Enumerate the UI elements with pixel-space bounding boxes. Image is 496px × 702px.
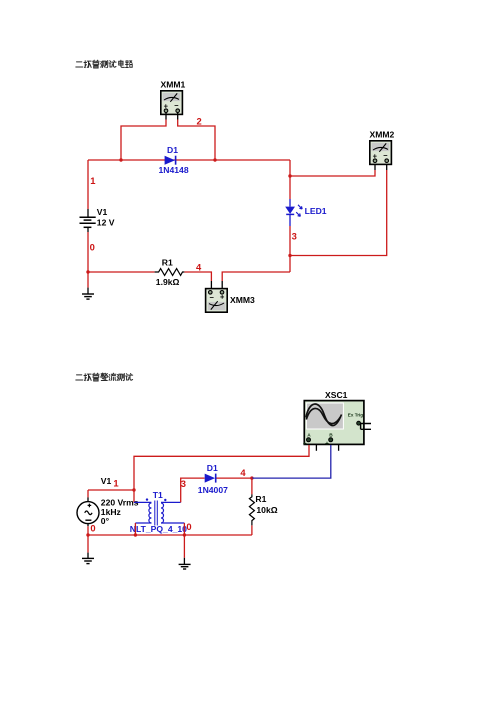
battery V1 <box>80 207 115 232</box>
title: circuit 2 (二极管整流测试) <box>76 373 133 381</box>
junction bottom-left <box>86 270 89 273</box>
svg-text:3: 3 <box>181 478 186 489</box>
ground (bottom circuit left) <box>82 553 94 564</box>
wire XMM1 + to node on top wire <box>121 120 166 161</box>
svg-text:XSC1: XSC1 <box>325 390 348 400</box>
svg-text:0: 0 <box>90 242 95 253</box>
svg-text:XMM2: XMM2 <box>370 130 395 140</box>
wire diode to node 4 junction <box>217 477 252 479</box>
wire T1 primary bottom to rail <box>134 523 136 535</box>
wire to ground left <box>87 535 89 553</box>
multimeter XMM2 <box>370 130 395 165</box>
junction V1 tap <box>132 488 135 491</box>
svg-text:0°: 0° <box>101 516 110 526</box>
wire down to ground <box>87 272 89 288</box>
wire XMM3 - to right rail <box>222 272 290 281</box>
svg-text:12 V: 12 V <box>97 218 115 228</box>
wire secondary top to node 3 corner <box>181 478 205 502</box>
svg-text:V1: V1 <box>101 476 112 486</box>
junction primary bottom <box>134 533 137 536</box>
wire XMM3 - lead <box>221 281 223 288</box>
svg-text:0: 0 <box>186 521 191 532</box>
svg-text:2: 2 <box>197 116 202 127</box>
junction right XMM1 tap <box>213 158 216 161</box>
multimeter XMM1 <box>161 80 186 115</box>
ground (top circuit) <box>82 288 94 300</box>
oscilloscope XSC1 <box>303 390 371 451</box>
junction XMM2 + tap <box>288 174 291 177</box>
svg-text:Ex Trig: Ex Trig <box>348 413 364 418</box>
LED1 <box>285 199 327 226</box>
junction left XMM1 tap <box>119 158 122 161</box>
junction node 4 <box>250 476 253 479</box>
wire node4 to XSC1 B (blue) <box>252 445 331 478</box>
wire XMM1 - lead <box>177 113 179 120</box>
svg-text:3: 3 <box>292 231 297 242</box>
svg-text:R1: R1 <box>162 258 173 268</box>
svg-text:1N4148: 1N4148 <box>159 165 189 175</box>
wire XMM2 - lead <box>386 163 388 171</box>
resistor R1 (bottom) <box>249 478 277 535</box>
svg-text:10kΩ: 10kΩ <box>256 505 277 515</box>
wire V1 top to junction <box>88 489 134 491</box>
wire V1 bottom to rail <box>87 526 89 535</box>
title: circuit 1 (二极管测试电路) <box>76 60 132 68</box>
wire XMM3 + lead <box>210 281 212 288</box>
wire XMM2 - branch <box>290 170 387 256</box>
svg-text:XMM3: XMM3 <box>230 295 255 305</box>
ground (bottom circuit middle) <box>179 558 191 569</box>
wire R1 to XMM3 + <box>184 272 211 281</box>
AC source V1 <box>77 476 139 526</box>
svg-text:LED1: LED1 <box>305 206 327 216</box>
svg-text:XMM1: XMM1 <box>161 80 186 90</box>
svg-text:R1: R1 <box>255 494 266 504</box>
svg-text:4: 4 <box>240 467 246 478</box>
svg-text:4: 4 <box>196 262 202 273</box>
svg-text:D1: D1 <box>207 463 218 473</box>
svg-text:1.9kΩ: 1.9kΩ <box>156 277 180 287</box>
svg-text:T1: T1 <box>153 490 163 500</box>
wire T1 secondary bottom to rail <box>183 523 185 535</box>
wire top rail node1-2 <box>88 159 290 161</box>
diode D1 <box>159 145 189 175</box>
multimeter XMM3 (rotated 180) <box>206 289 255 313</box>
wire to ground middle <box>183 535 185 558</box>
wire node1 top to LED (right vertical top) <box>289 160 291 199</box>
wire battery to bottom-left corner <box>87 232 89 272</box>
transformer T1 <box>130 490 187 534</box>
wire right rail up <box>289 226 291 272</box>
svg-text:NLT_PQ_4_10: NLT_PQ_4_10 <box>130 524 187 534</box>
svg-text:0: 0 <box>90 522 95 533</box>
resistor R1 <box>155 258 185 288</box>
wire XMM2 + lead <box>374 163 376 171</box>
wire XSC1 A to V1/T1 node <box>134 445 309 502</box>
wire bottom rail left of R1 <box>88 271 155 273</box>
bottom rail <box>88 534 252 536</box>
svg-text:V1: V1 <box>97 207 108 217</box>
wire XMM2 + branch <box>290 170 375 176</box>
diode D1 (bottom) <box>198 463 228 495</box>
junction secondary bottom <box>183 533 186 536</box>
wire XMM1 + lead <box>165 113 167 120</box>
wire left rail (node 1) <box>87 160 89 209</box>
svg-text:D1: D1 <box>167 145 178 155</box>
junction node3/XMM2- tap <box>288 254 291 257</box>
svg-text:1: 1 <box>113 478 118 489</box>
svg-text:1N4007: 1N4007 <box>198 485 228 495</box>
junction V1 bottom <box>86 533 89 536</box>
svg-text:1: 1 <box>90 175 95 186</box>
wire XMM1 - to node 2 <box>178 120 215 161</box>
